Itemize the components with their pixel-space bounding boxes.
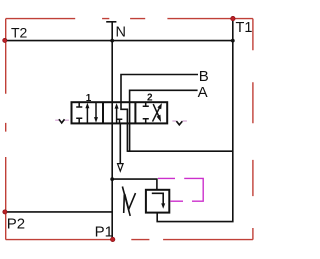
wire: port B line	[121, 75, 198, 152]
wire: drain stub with open arrow below valve	[119, 123, 121, 164]
svg-text:A: A	[198, 84, 208, 101]
wire: N / pump line vertical down to P1	[111, 22, 113, 239]
relief valve RV1 body	[146, 190, 169, 213]
port P2 marker	[3, 210, 7, 214]
RV1 internal flow arrow	[152, 193, 163, 204]
DV1 right spring	[172, 120, 187, 122]
magenta pilot line (dashed)	[158, 178, 203, 201]
DV1 position 1 up arrow	[86, 107, 88, 124]
svg-text:T2: T2	[11, 24, 28, 40]
DV1 centre box blocked port bottom	[117, 119, 123, 123]
RV1 adjustable spring	[122, 187, 135, 216]
port P1 marker	[111, 237, 115, 241]
junction dot T1 x tank line	[231, 39, 235, 43]
DV1 position 2 blocked ports	[143, 102, 149, 123]
wire: T1 vertical and return path under relief valve	[157, 19, 233, 222]
wire: port A line	[130, 90, 198, 152]
enclosure frame (red dashed border)	[6, 19, 253, 240]
port T2 marker	[3, 38, 7, 42]
DV1 position 2 crossed arrows	[153, 106, 161, 121]
DV1 left spring	[55, 119, 69, 121]
svg-text:N: N	[116, 24, 126, 40]
DV1 position 1 (left box) blocked port top	[76, 102, 82, 123]
wire: relief valve takeoff from pump line	[112, 179, 157, 190]
wire: port P2 line	[6, 211, 112, 213]
svg-text:T1: T1	[236, 20, 253, 36]
node N closed top tick	[106, 21, 116, 23]
svg-text:1: 1	[86, 93, 92, 104]
svg-text:P2: P2	[7, 215, 25, 232]
junction dot N x tank line	[110, 39, 114, 43]
directional valve DV1 body	[72, 102, 168, 123]
port T1 marker	[231, 16, 235, 20]
DV1 centre box up arrow	[116, 107, 118, 123]
wire: drain to T1 line	[127, 150, 232, 152]
svg-text:B: B	[199, 68, 209, 85]
wire: tank line T2 to T1 junction	[6, 40, 233, 42]
svg-text:P1: P1	[95, 223, 113, 240]
svg-text:2: 2	[147, 93, 153, 104]
DV1 position 1 down arrow	[95, 102, 97, 119]
junction dot relief takeoff	[110, 177, 114, 181]
